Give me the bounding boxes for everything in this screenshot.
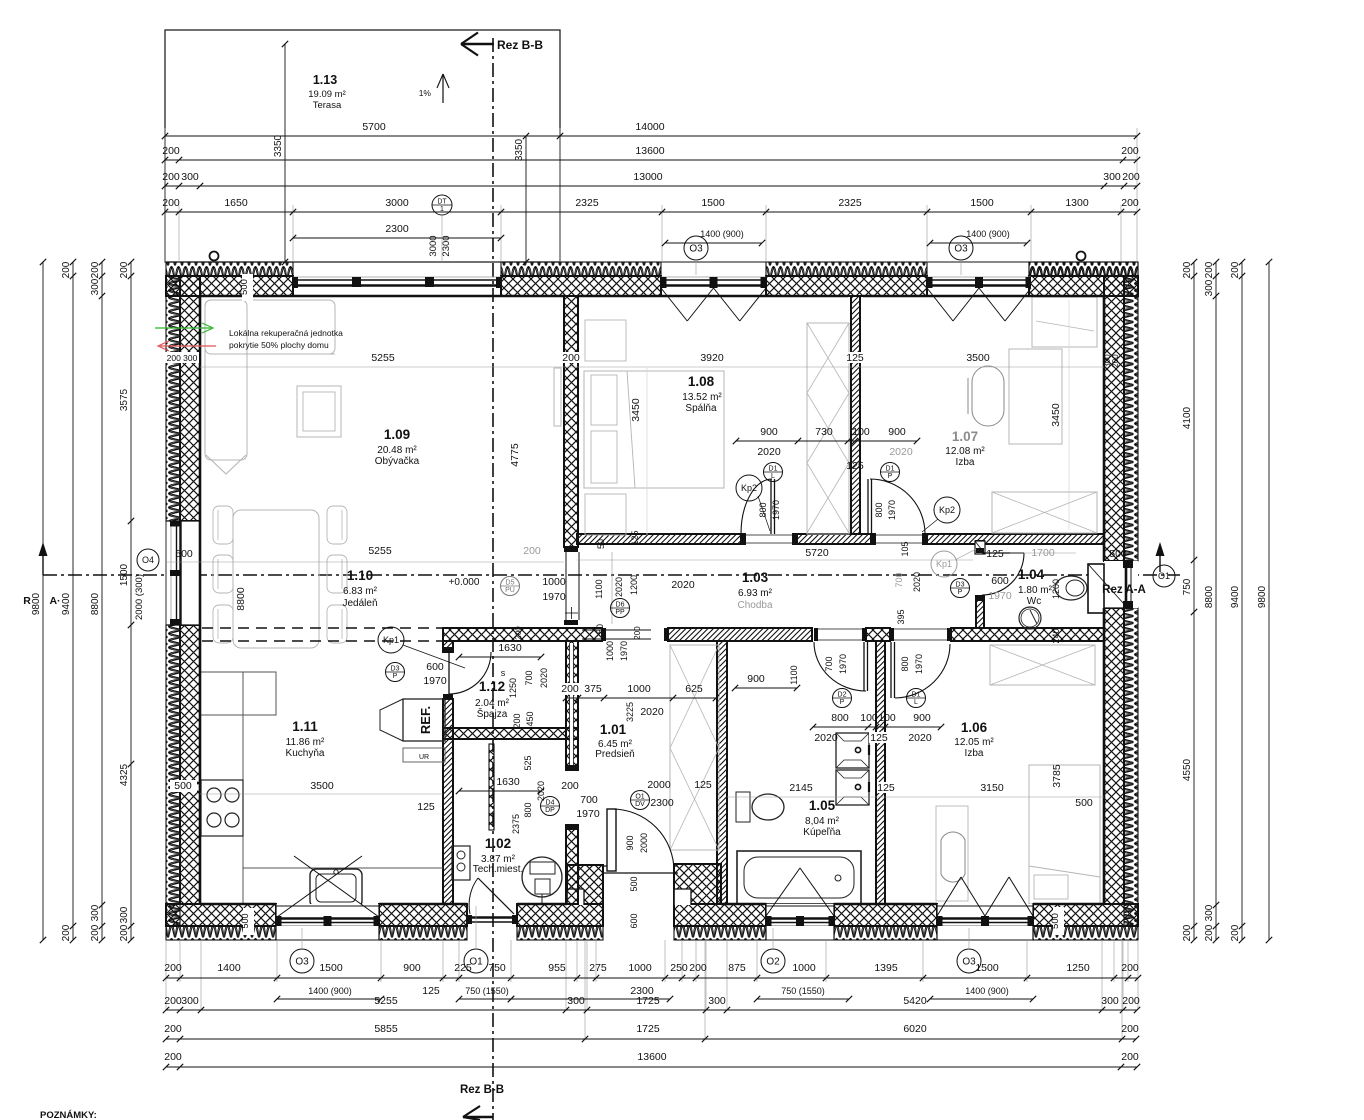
wall exterior top [166, 262, 293, 276]
section arrow Rez A-A left [42, 548, 44, 575]
svg-text:+0.000: +0.000 [449, 577, 480, 588]
wall corridor south band [443, 628, 602, 641]
dimension row bottom 5 [166, 1066, 1137, 1068]
cabinet UR [403, 748, 445, 762]
svg-text:450: 450 [525, 711, 535, 726]
door bubble D1/P 1.07 [881, 463, 900, 482]
svg-text:DT: DT [437, 199, 447, 206]
svg-text:Chodba: Chodba [737, 600, 772, 611]
svg-text:200: 200 [1121, 1051, 1139, 1063]
svg-text:8800: 8800 [90, 592, 101, 615]
wall exterior right top corner [1029, 262, 1138, 276]
witness lines top [164, 128, 166, 262]
svg-text:1970: 1970 [887, 500, 897, 520]
porch side wall blocks [567, 865, 603, 904]
svg-text:3000: 3000 [428, 235, 439, 256]
dim 200 375 predsien top [562, 683, 579, 695]
svg-text:2325: 2325 [838, 197, 862, 209]
red exhaust arrow [160, 345, 216, 347]
svg-text:REF.: REF. [418, 706, 433, 734]
svg-text:8800: 8800 [1204, 585, 1215, 608]
svg-text:1500: 1500 [319, 962, 343, 974]
washing machine [522, 857, 562, 897]
svg-text:200: 200 [523, 545, 541, 557]
wardrobe room 1.07 [992, 492, 1097, 533]
right chain 9800 [1268, 262, 1270, 940]
svg-text:8,04 m²: 8,04 m² [805, 816, 840, 827]
svg-text:1400 (900): 1400 (900) [700, 229, 744, 239]
svg-text:900: 900 [760, 426, 778, 438]
svg-text:300: 300 [90, 904, 101, 921]
svg-text:O3: O3 [295, 957, 309, 968]
svg-text:125: 125 [846, 352, 864, 364]
door D3 wc [982, 552, 1024, 554]
dining table with chairs [233, 510, 319, 648]
window bubble O3 top left [684, 236, 708, 260]
svg-text:750: 750 [488, 962, 506, 974]
window swing lines kitchen O3 [277, 856, 362, 917]
svg-text:4325: 4325 [119, 763, 130, 786]
dimension row 200 13600 200 [165, 159, 1137, 161]
svg-text:2000: 2000 [647, 779, 671, 791]
dimension 1400 (900) windows top [665, 242, 762, 244]
svg-text:275: 275 [589, 962, 607, 974]
wc niche [1088, 564, 1104, 613]
door bubble DT terrace [432, 195, 452, 215]
window O2 bathroom [766, 904, 834, 940]
downpipe top right [1077, 252, 1086, 261]
svg-text:1970: 1970 [988, 590, 1012, 602]
svg-text:1.10: 1.10 [347, 568, 373, 583]
right chain segments [1193, 262, 1195, 940]
svg-text:O1: O1 [1158, 571, 1170, 581]
svg-text:200: 200 [162, 145, 180, 157]
svg-text:800: 800 [523, 802, 533, 817]
duct near wc [975, 541, 985, 554]
svg-text:O3: O3 [954, 244, 968, 255]
svg-text:300: 300 [119, 906, 130, 923]
nightstand 1.08 lower [585, 494, 626, 535]
door D1 room 1.07 [867, 479, 869, 534]
svg-text:1300: 1300 [1065, 197, 1089, 209]
svg-text:200: 200 [1122, 171, 1140, 183]
window O3 room 1.06 [937, 904, 1033, 940]
svg-text:875: 875 [728, 962, 746, 974]
svg-text:125: 125 [877, 782, 895, 794]
svg-text:13600: 13600 [635, 145, 664, 157]
door D2 bathroom [863, 642, 865, 691]
svg-text:Jedáleň: Jedáleň [342, 598, 377, 609]
svg-text:1500: 1500 [970, 197, 994, 209]
svg-text:800: 800 [900, 656, 910, 671]
svg-text:3350: 3350 [273, 134, 284, 157]
tech dims [459, 790, 541, 792]
svg-text:Kp2: Kp2 [741, 483, 757, 493]
svg-text:A·: A· [49, 595, 60, 607]
svg-text:200: 200 [164, 1023, 182, 1035]
dimension row window spacing top [165, 211, 1137, 213]
svg-text:Obývačka: Obývačka [375, 456, 420, 467]
svg-text:105: 105 [900, 541, 910, 556]
wall spajza-predsien vertical [566, 641, 578, 770]
svg-text:200: 200 [1122, 995, 1140, 1007]
wardrobe predsien [670, 645, 719, 850]
svg-text:300: 300 [181, 171, 199, 183]
svg-text:D2: D2 [838, 692, 847, 699]
sink wc [1019, 607, 1041, 629]
svg-text:1395: 1395 [874, 962, 898, 974]
svg-text:1630: 1630 [496, 776, 520, 788]
svg-text:14000: 14000 [635, 121, 664, 133]
svg-text:1630: 1630 [498, 642, 522, 654]
svg-text:19.09 m²: 19.09 m² [308, 89, 346, 100]
kitchen counter lower [442, 641, 444, 904]
svg-text:5855: 5855 [374, 1023, 398, 1035]
svg-text:2300: 2300 [650, 797, 674, 809]
toilet wc [1055, 576, 1087, 600]
svg-text:11.86 m²: 11.86 m² [286, 737, 325, 748]
svg-text:5255: 5255 [368, 545, 392, 557]
door frame wc jambs [976, 548, 984, 553]
svg-text:O4: O4 [142, 555, 154, 565]
svg-text:12.08 m²: 12.08 m² [945, 446, 985, 457]
svg-text:PP: PP [615, 609, 625, 616]
svg-text:100: 100 [878, 712, 896, 724]
svg-text:2020: 2020 [889, 446, 913, 458]
svg-text:1.11: 1.11 [292, 719, 318, 734]
left chain segments [130, 262, 132, 940]
door D5 pocket jamb lines [565, 552, 567, 620]
svg-text:Izba: Izba [956, 457, 975, 468]
svg-text:2000 (300): 2000 (300) [134, 574, 145, 620]
wall thickness labels 500 [242, 274, 253, 301]
svg-text:5700: 5700 [362, 121, 386, 133]
svg-text:2.04 m²: 2.04 m² [475, 698, 510, 709]
svg-text:D1: D1 [912, 692, 921, 699]
door dims 1.08/1.07 [736, 440, 917, 442]
svg-text:P: P [888, 473, 893, 480]
wall spajza south [443, 728, 578, 739]
svg-text:POZNÁMKY:: POZNÁMKY: [40, 1110, 97, 1120]
svg-text:125: 125 [846, 460, 864, 472]
bubble Kp1 kitchen [378, 627, 404, 653]
svg-text:13.52 m²: 13.52 m² [682, 392, 722, 403]
svg-text:900: 900 [747, 673, 765, 685]
wall exterior right [1104, 296, 1124, 561]
left window bubble O4 [137, 549, 159, 571]
sliding terrace door DT [293, 261, 501, 263]
svg-text:300: 300 [567, 995, 585, 1007]
svg-text:1.08: 1.08 [688, 374, 715, 389]
svg-text:125: 125 [694, 779, 712, 791]
kitchen stove [201, 780, 243, 836]
svg-text:8800: 8800 [235, 587, 247, 611]
window O3 casement swing lines [661, 288, 687, 321]
svg-text:3785: 3785 [1051, 764, 1063, 788]
section arrow Rez A-A right [1159, 548, 1161, 572]
window bubble O3 bottom 1.06 [957, 949, 981, 973]
svg-text:2300: 2300 [385, 223, 409, 235]
svg-text:R: R [23, 595, 31, 607]
svg-text:200: 200 [514, 626, 523, 640]
svg-text:Wc: Wc [1027, 596, 1041, 607]
svg-text:125: 125 [870, 732, 888, 744]
svg-text:6.93 m²: 6.93 m² [738, 588, 773, 599]
svg-text:1000: 1000 [627, 683, 651, 695]
svg-text:O3: O3 [962, 957, 976, 968]
svg-text:100: 100 [860, 712, 878, 724]
dashed wall-above line dining lower [202, 640, 443, 642]
svg-text:1250: 1250 [1066, 962, 1090, 974]
coffee table [297, 386, 341, 437]
kitchen bottom counter [243, 867, 443, 869]
door D6 pocket predsien [582, 629, 651, 631]
svg-text:12.05 m²: 12.05 m² [954, 737, 994, 748]
window bubble O3 bottom kitchen [290, 949, 314, 973]
svg-text:200: 200 [561, 780, 579, 792]
svg-text:1.07: 1.07 [952, 429, 978, 444]
svg-text:Predsieň: Predsieň [595, 749, 634, 760]
svg-text:D6: D6 [616, 602, 625, 609]
svg-text:D1: D1 [886, 466, 895, 473]
svg-text:5720: 5720 [805, 547, 829, 559]
svg-text:2020: 2020 [671, 579, 695, 591]
svg-text:Kúpeľňa: Kúpeľňa [803, 827, 841, 838]
svg-text:4775: 4775 [509, 443, 521, 467]
svg-text:2020: 2020 [757, 446, 781, 458]
svg-text:1.01: 1.01 [600, 722, 627, 737]
section line Rez B-B [492, 38, 494, 1120]
svg-text:500: 500 [1075, 797, 1093, 809]
dimension 2300 terrace door [293, 237, 501, 239]
door bubble D6/PP predsien [611, 599, 630, 618]
svg-text:1.06: 1.06 [961, 720, 988, 735]
svg-text:1: 1 [440, 206, 444, 213]
svg-text:9800: 9800 [31, 592, 42, 615]
svg-text:Lokálna rekuperačná jednotka: Lokálna rekuperačná jednotka [229, 328, 343, 338]
svg-text:6020: 6020 [903, 1023, 927, 1035]
dimension row 5700 / 14000 [165, 135, 1137, 137]
svg-text:500: 500 [174, 780, 192, 792]
svg-text:2375: 2375 [511, 814, 521, 834]
window O3 kitchen [276, 904, 379, 940]
window swing lines bathroom O2 [766, 868, 800, 916]
svg-text:2300: 2300 [441, 235, 452, 256]
svg-text:3150: 3150 [980, 782, 1004, 794]
svg-text:200: 200 [90, 261, 101, 278]
svg-text:500: 500 [175, 548, 193, 560]
bubble Kp1 wc [931, 551, 957, 577]
toilet bathroom [752, 794, 784, 820]
svg-text:1400: 1400 [217, 962, 241, 974]
svg-text:Špajza: Špajza [477, 707, 508, 720]
door bubble O1/DV entry [631, 791, 650, 810]
wall bathroom/1.06 vertical [876, 641, 885, 904]
svg-text:250: 250 [670, 962, 688, 974]
svg-text:525: 525 [523, 755, 533, 770]
window O3 top [661, 261, 766, 263]
svg-text:Tech.miest.: Tech.miest. [473, 864, 524, 875]
svg-text:50: 50 [595, 624, 605, 634]
svg-text:1.05: 1.05 [809, 798, 836, 813]
svg-text:D4: D4 [546, 800, 555, 807]
svg-text:200: 200 [1204, 261, 1215, 278]
svg-text:200: 200 [162, 171, 180, 183]
svg-text:625: 625 [685, 683, 703, 695]
svg-text:200: 200 [164, 962, 182, 974]
door dims bathroom/1.06 [813, 726, 941, 728]
right window bubble O1 [1153, 565, 1175, 587]
bubble Kp2 1.08 [736, 475, 762, 501]
boiler tech [452, 846, 470, 880]
svg-text:500: 500 [240, 913, 250, 928]
svg-text:PU: PU [505, 587, 515, 594]
dashed wall-above line dining upper [202, 627, 443, 629]
svg-text:200: 200 [61, 261, 72, 278]
wall interior 1.09/1.08 [564, 296, 578, 547]
wardrobe room 1.06 [990, 645, 1095, 685]
svg-text:O2: O2 [766, 957, 780, 968]
svg-text:9400: 9400 [1230, 585, 1241, 608]
wall corridor north [577, 534, 741, 544]
slope arrow 1% [442, 74, 444, 103]
svg-text:2020: 2020 [908, 732, 932, 744]
svg-text:2020: 2020 [814, 732, 838, 744]
svg-text:125: 125 [986, 548, 1004, 560]
svg-text:1200: 1200 [629, 575, 639, 595]
svg-text:300: 300 [1204, 279, 1215, 296]
svg-text:700: 700 [580, 794, 598, 806]
svg-text:13000: 13000 [633, 171, 662, 183]
section line Rez A-A [43, 574, 1180, 576]
terrace 1.13 outline [165, 30, 560, 262]
svg-text:6.83 m²: 6.83 m² [343, 586, 378, 597]
svg-text:1250: 1250 [508, 678, 518, 698]
wall kitchen/spajza vertical [443, 641, 453, 652]
svg-text:200: 200 [119, 261, 130, 278]
svg-text:1.80 m²: 1.80 m² [1018, 585, 1053, 596]
door frame D6 [602, 628, 606, 641]
svg-text:DP: DP [545, 807, 555, 814]
svg-text:1400 (900): 1400 (900) [308, 986, 352, 996]
svg-text:1500: 1500 [119, 563, 130, 586]
svg-text:3350: 3350 [514, 138, 525, 161]
window O1 wc right wall [1104, 561, 1138, 608]
svg-text:DV: DV [635, 801, 645, 808]
door bubble D1/L 1.08 [764, 463, 783, 482]
svg-text:300: 300 [1204, 904, 1215, 921]
svg-text:200: 200 [119, 924, 130, 941]
svg-text:1.02: 1.02 [485, 836, 511, 851]
wall corridor/wc vertical [976, 541, 984, 553]
svg-text:pokrytie 50% plochy domu: pokrytie 50% plochy domu [229, 340, 329, 350]
inner wall face lines [199, 296, 202, 904]
svg-text:4100: 4100 [1182, 406, 1193, 429]
svg-text:200: 200 [1230, 261, 1241, 278]
svg-text:13600: 13600 [637, 1051, 666, 1063]
svg-text:1200: 1200 [1051, 579, 1061, 599]
svg-text:Kp1: Kp1 [383, 635, 399, 645]
bath tub [737, 851, 861, 904]
svg-text:2000: 2000 [639, 833, 649, 853]
svg-text:9800: 9800 [1257, 585, 1268, 608]
svg-text:900: 900 [913, 712, 931, 724]
svg-text:200: 200 [164, 995, 182, 1007]
wall exterior bottom [166, 904, 276, 926]
svg-text:5255: 5255 [374, 995, 398, 1007]
svg-text:Izba: Izba [965, 748, 984, 759]
svg-text:1970: 1970 [542, 591, 566, 603]
svg-text:P: P [393, 673, 398, 680]
svg-text:3500: 3500 [310, 780, 334, 792]
svg-text:1100: 1100 [594, 579, 604, 598]
svg-text:5255: 5255 [371, 352, 395, 364]
svg-text:2020: 2020 [912, 572, 922, 592]
svg-text:750: 750 [1182, 578, 1193, 595]
svg-text:900: 900 [888, 426, 906, 438]
svg-text:1100: 1100 [789, 665, 799, 684]
svg-text:s: s [501, 668, 506, 678]
door bubble D5/PU dining [501, 577, 520, 596]
door D3 spajza [448, 652, 450, 694]
svg-text:125: 125 [630, 530, 640, 545]
svg-text:240: 240 [1051, 628, 1061, 643]
bed room 1.06 [1029, 765, 1100, 904]
door bubble D2/P bath [833, 689, 852, 708]
svg-text:500: 500 [239, 279, 250, 295]
svg-text:900: 900 [625, 835, 635, 850]
svg-text:3500: 3500 [966, 352, 990, 364]
svg-text:2145: 2145 [789, 782, 813, 794]
svg-text:200: 200 [689, 962, 707, 974]
svg-text:Rez B-B: Rez B-B [460, 1084, 504, 1096]
svg-text:1%: 1% [419, 88, 432, 98]
door frame D4 jambs [566, 765, 578, 770]
dimension row bottom 4 [166, 1038, 1136, 1040]
wall interior 1.08/1.07 [851, 296, 860, 534]
svg-text:2020: 2020 [539, 668, 549, 688]
kitchen sink [310, 869, 362, 907]
svg-text:P: P [958, 589, 963, 596]
svg-text:1000: 1000 [605, 641, 615, 661]
right chain 8800 [1215, 262, 1217, 940]
svg-text:1970: 1970 [771, 500, 781, 520]
svg-text:200 300: 200 300 [167, 353, 198, 363]
svg-text:Spálňa: Spálňa [685, 403, 717, 414]
tech room back door O1 [470, 916, 514, 918]
svg-text:200: 200 [1182, 924, 1193, 941]
svg-text:200: 200 [561, 683, 579, 695]
svg-text:300: 300 [1101, 995, 1119, 1007]
left chain 9800 [42, 262, 44, 940]
svg-text:1.04: 1.04 [1018, 567, 1045, 582]
window bubble O3 top right [949, 236, 973, 260]
svg-text:200: 200 [1121, 145, 1139, 157]
double sink bathroom [836, 733, 869, 768]
door bubble O1 bottom tech [464, 949, 488, 973]
svg-text:Terasa: Terasa [313, 100, 342, 111]
left chain 9400 [72, 262, 74, 940]
svg-text:4550: 4550 [1182, 758, 1193, 781]
svg-text:1000: 1000 [792, 962, 816, 974]
svg-text:1500: 1500 [701, 197, 725, 209]
svg-text:125: 125 [417, 801, 435, 813]
svg-text:O1: O1 [469, 957, 483, 968]
wardrobe room 1.08 [807, 323, 849, 534]
svg-text:UR: UR [419, 754, 429, 761]
svg-text:2325: 2325 [575, 197, 599, 209]
section arrow Rez B-B top [461, 43, 494, 46]
